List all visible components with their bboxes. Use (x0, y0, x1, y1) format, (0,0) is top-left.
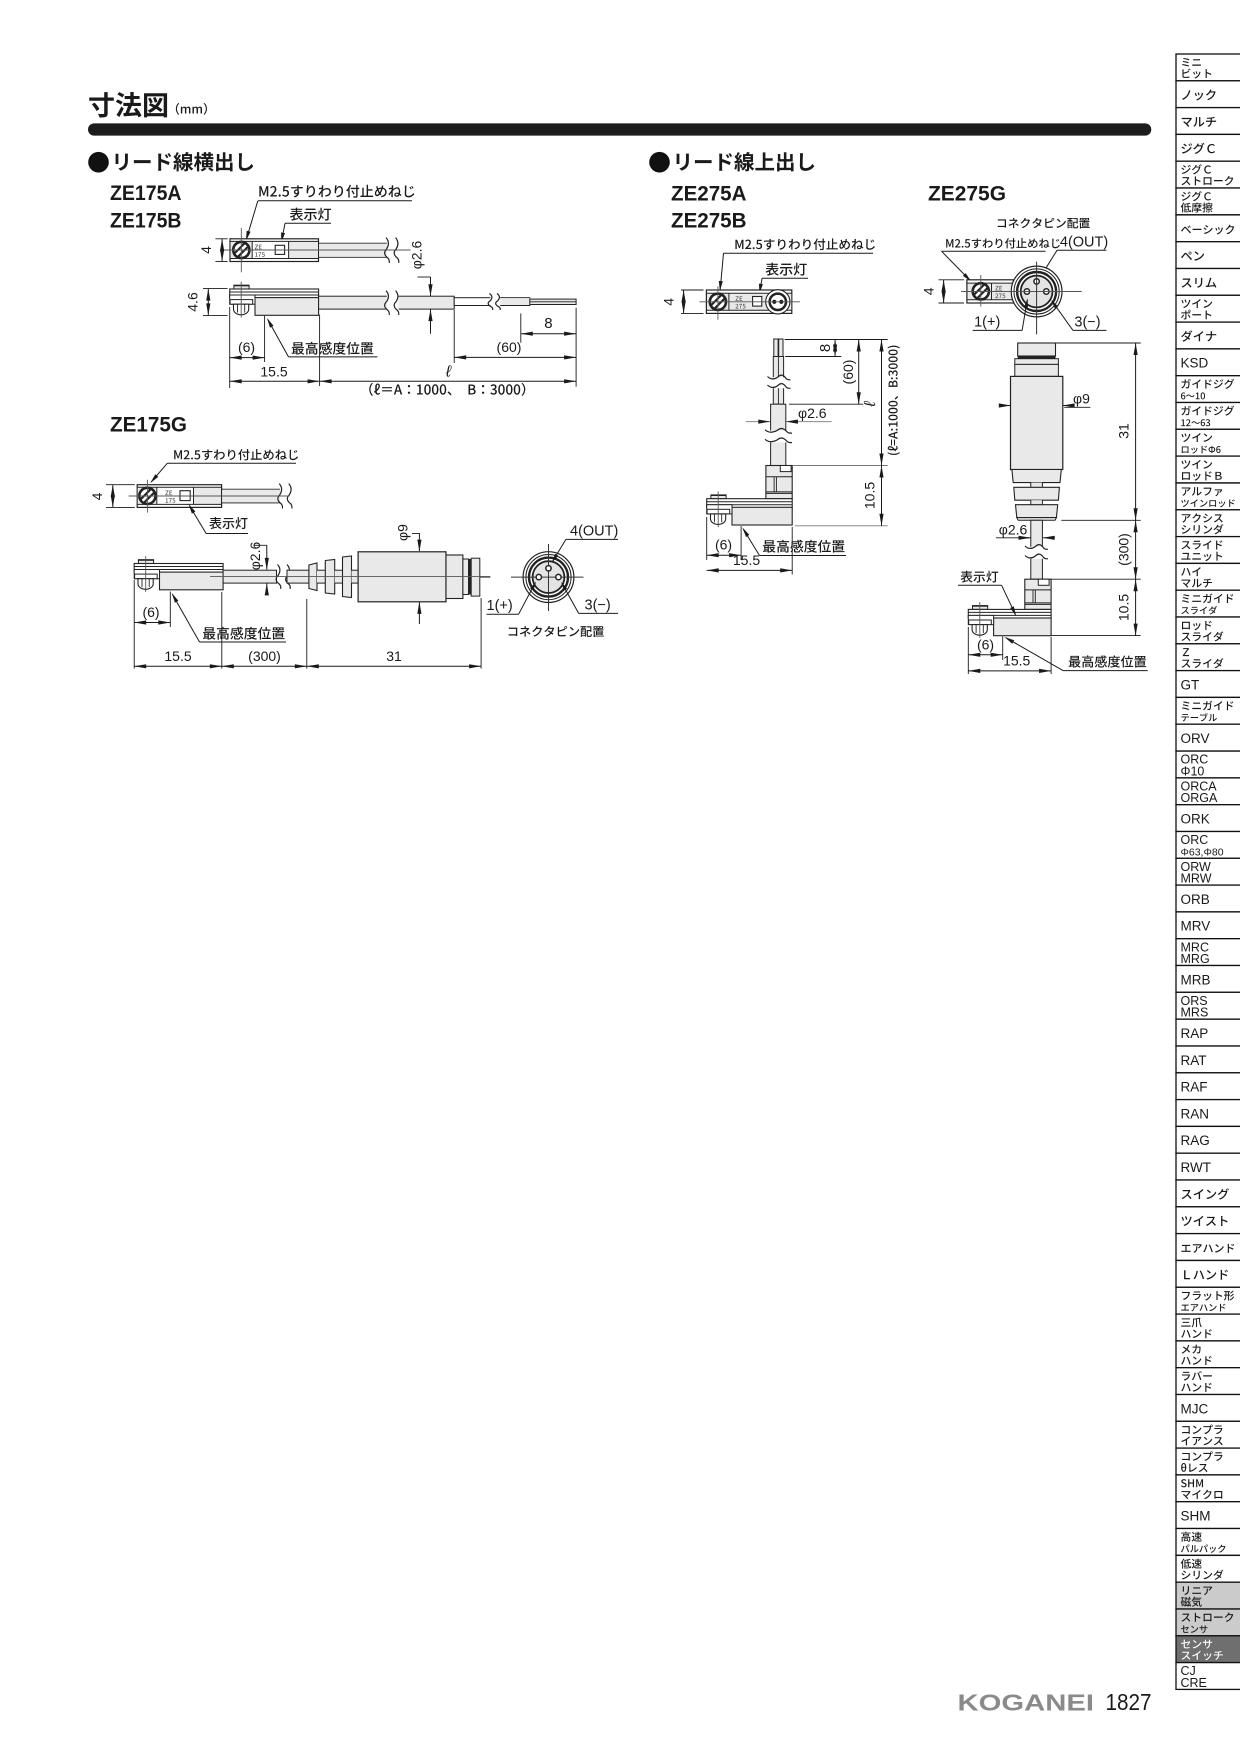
fig1 top view centerline (222, 249, 411, 251)
sidebar tab RAN (1176, 1100, 1240, 1127)
fig2 connector boot waist3 (352, 570, 359, 583)
svg-text:15.5: 15.5 (260, 364, 287, 380)
fig2 top view indicator square (180, 491, 190, 501)
svg-text:(6): (6) (142, 604, 159, 620)
fig3 dim 8 (834, 340, 836, 357)
sidebar tab Ｚ (1176, 644, 1240, 671)
sidebar tab ジグＣ (1176, 188, 1240, 215)
fig2 label M2.5 screw (174, 449, 298, 460)
fig3 ext left (706, 517, 708, 560)
fig3 top view inner lines (706, 292, 791, 294)
svg-text:KSD: KSD (1181, 356, 1209, 371)
svg-text:ORC: ORC (1181, 833, 1209, 847)
svg-text:RAG: RAG (1181, 1133, 1210, 1148)
fig4 label 表示灯 (960, 571, 998, 583)
fig2 pin 4 (546, 566, 551, 571)
fig4 boot waist1 (1031, 483, 1043, 488)
fig3 leader 表示灯 (762, 277, 808, 279)
fig2 connector ring (446, 555, 463, 599)
fig4 dim 15.5 (968, 670, 1051, 672)
sidebar tab RAP (1176, 1019, 1240, 1046)
fig4 top view inner band (968, 283, 1013, 300)
sidebar tab コンプラ (1176, 1448, 1240, 1475)
fig2 connector boot waist1 (317, 570, 325, 583)
sidebar tab フラット形 (1176, 1287, 1240, 1314)
sidebar tab ロッド (1176, 617, 1240, 644)
fig2 ext boot left (306, 599, 308, 669)
svg-text:SHM: SHM (1181, 1509, 1211, 1524)
fig2 top view model text (165, 491, 172, 496)
fig2 connector boot rib2 (325, 560, 334, 595)
fig4 leader M2.5 (942, 250, 1046, 252)
section heading リード線上出し (676, 152, 814, 171)
fig2 top view vertical centerline (146, 480, 148, 513)
fig2 connector oring (469, 559, 472, 595)
fig4 dim phi2.6 (1018, 537, 1030, 539)
sidebar tab ダイナ (1176, 322, 1240, 349)
fig4 pin crosshair (1036, 262, 1038, 335)
fig3 top view indicator square (753, 297, 762, 307)
svg-text:ORK: ORK (1181, 812, 1210, 827)
sidebar tab ペン (1176, 242, 1240, 269)
svg-text:31: 31 (386, 648, 402, 664)
svg-text:RAT: RAT (1181, 1053, 1207, 1068)
sidebar tab スリム (1176, 269, 1240, 296)
fig3 top view inner band (707, 293, 791, 310)
fig2 pin 3 (556, 574, 561, 579)
fig2 label 1(+) line (487, 613, 519, 615)
fig2 side centerline (210, 576, 490, 578)
fig4 label 3(-) line (1073, 329, 1106, 331)
fig2 connector boot rib3 (343, 556, 352, 598)
svg-text:φ2.6: φ2.6 (409, 241, 425, 270)
svg-text:(60): (60) (840, 360, 856, 385)
fig1 top view cable (319, 243, 391, 257)
fig2 side cable (223, 570, 276, 583)
fig3 dim 10.5 (881, 466, 883, 526)
fig1 side thin tube (454, 298, 530, 306)
sidebar tab MJC (1176, 1395, 1240, 1422)
fig1 top view vertical centerline (240, 228, 242, 272)
fig1 dim 4.6 (207, 289, 209, 316)
fig2 ext body right (221, 592, 223, 669)
sidebar tab ツイン (1176, 295, 1240, 322)
fig4 pin circle rings (1011, 266, 1062, 317)
fig3 boss lines (766, 476, 792, 478)
sidebar tab SHM (1176, 1475, 1240, 1502)
fig1 top view cable break (387, 238, 399, 263)
fig4 sensor underline+leader (1063, 670, 1148, 672)
fig4 ext boss top (1051, 578, 1141, 580)
sidebar tab ノック (1176, 81, 1240, 108)
fig4 boss lines (1025, 589, 1051, 591)
svg-text:ORB: ORB (1181, 892, 1210, 907)
fig4 dim 31 (1135, 343, 1137, 520)
fig3 top view model text (735, 296, 742, 301)
sidebar tab ORS (1176, 992, 1240, 1019)
fig2 label 4(OUT) line (566, 538, 618, 540)
sidebar tab RAT (1176, 1046, 1240, 1073)
sidebar tab SHM (1176, 1502, 1240, 1529)
fig1 side twin lead (530, 299, 576, 304)
fig2 connector ring2 (463, 559, 469, 595)
fig3 dim l (881, 340, 883, 466)
fig3 cable break (765, 431, 792, 443)
fig1 top view body (230, 239, 319, 262)
fig4 connector oring (1018, 356, 1056, 359)
sidebar tab MRV (1176, 912, 1240, 939)
fig4 label 最高感度位置 (1069, 655, 1146, 667)
fig3 jacket break (768, 377, 791, 388)
fig4 ext sensor (1002, 637, 1004, 661)
svg-text:4: 4 (198, 246, 214, 254)
sidebar tab ORB (1176, 885, 1240, 912)
sidebar tab 高速 (1176, 1529, 1240, 1556)
fig4 boot rib1 (1012, 470, 1061, 483)
svg-text:1827: 1827 (1106, 1689, 1152, 1715)
sidebar tab ミニガイド (1176, 697, 1240, 724)
fig4 top view vertical centerline (980, 275, 982, 307)
sidebar tab MRC (1176, 939, 1240, 966)
section bullet left (88, 152, 109, 173)
fig2 dim phi9 (418, 533, 420, 551)
fig4 cable phi2.6 (1031, 520, 1043, 579)
sidebar tab スイング (1176, 1180, 1240, 1207)
fig2 top view body (137, 485, 221, 508)
title bar (88, 123, 1151, 135)
fig2 top view cable (222, 489, 283, 503)
fig3 top view centerline (699, 301, 800, 303)
fig3 cable phi2.6 (771, 404, 786, 465)
svg-text:4.6: 4.6 (185, 292, 201, 312)
fig3 ext lead end (785, 356, 841, 358)
fig1 top view inner band (231, 241, 253, 258)
svg-text:KOGANEI: KOGANEI (958, 1690, 1095, 1716)
sidebar tab マルチ (1176, 108, 1240, 135)
fig1 side view body (234, 285, 249, 289)
sidebar tab ORC (1176, 751, 1240, 778)
fig4 ext boot bottom (1061, 519, 1140, 521)
fig1 dim 4.6 ext (203, 288, 228, 290)
sidebar tab CJ (1176, 1663, 1240, 1690)
fig2 leader M2.5 (167, 462, 296, 464)
fig2 ext left (133, 580, 135, 669)
fig1 dim 8 (521, 333, 576, 335)
svg-text:8: 8 (817, 344, 834, 352)
fig2 sensor underline+leader (200, 641, 287, 643)
svg-text:φ2.6: φ2.6 (999, 522, 1028, 538)
fig4 connector ring (1015, 364, 1059, 376)
fig4 top view screw M2.5 (973, 283, 989, 299)
fig4 boot waist2 (1031, 500, 1043, 505)
sidebar tab ガイドジグ (1176, 376, 1240, 403)
fig4 label 4(OUT) line (1057, 249, 1106, 251)
svg-text:MRW: MRW (1181, 872, 1212, 886)
fig2 top view screw M2.5 (139, 488, 155, 504)
fig4 ext left (967, 627, 969, 674)
fig2 side view body (138, 560, 153, 564)
svg-text:MRV: MRV (1181, 919, 1211, 934)
fig3 top view exit circle (766, 290, 790, 314)
fig1 label 表示灯 (290, 208, 331, 221)
fig3 ext top (785, 339, 888, 341)
sidebar tab ミニ (1176, 54, 1240, 81)
fig4 connector cylinder (1011, 376, 1063, 469)
fig4 pin 4 (1034, 279, 1039, 284)
fig4 dim 4 ext (939, 279, 965, 281)
fig1 ext sensor pos (264, 316, 266, 362)
svg-text:MRS: MRS (1181, 1006, 1209, 1020)
fig2 connector boot rib1 (309, 563, 317, 591)
svg-text:Φ63,Φ80: Φ63,Φ80 (1181, 847, 1224, 859)
fig3 ext body top (793, 465, 888, 467)
sidebar tab RWT (1176, 1153, 1240, 1180)
fig2 label 3(-) line (579, 612, 618, 614)
sidebar tab ORW (1176, 858, 1240, 885)
svg-text:ORGA: ORGA (1181, 791, 1218, 805)
fig3 dim (60) (858, 340, 860, 405)
svg-text:RAN: RAN (1181, 1106, 1210, 1121)
sidebar tab センサ (1176, 1636, 1240, 1663)
fig3 label 最高感度位置 (763, 540, 845, 553)
fig1 ext wire end (575, 308, 577, 387)
fig4 boot rib3 (1016, 505, 1058, 518)
fig2 top view inner lines (137, 486, 221, 488)
fig3 label M2.5 screw (735, 238, 874, 250)
svg-text:CRE: CRE (1181, 1676, 1207, 1690)
fig4 connector ring2 (1015, 359, 1059, 365)
fig1 label 最高感度位置 (292, 342, 374, 355)
sidebar tab ミニガイド (1176, 590, 1240, 617)
sidebar tab MRB (1176, 966, 1240, 993)
fig3 dim 15.5 (707, 569, 793, 571)
svg-text:4: 4 (89, 492, 105, 500)
svg-text:ℓ: ℓ (862, 401, 879, 408)
title 寸法図 (89, 92, 167, 117)
svg-text:ORV: ORV (1181, 731, 1210, 746)
svg-text:ZE175A: ZE175A (110, 182, 182, 205)
fig4 ext body right (1050, 637, 1052, 674)
svg-text:4: 4 (661, 298, 677, 306)
svg-text:ZE275G: ZE275G (928, 183, 1006, 206)
fig3 top view screw M2.5 (710, 294, 726, 310)
sidebar tab KSD (1176, 349, 1240, 376)
sidebar tab ORK (1176, 805, 1240, 832)
sidebar tab ベーシック (1176, 215, 1240, 242)
svg-text:10.5: 10.5 (862, 482, 878, 509)
svg-text:ZE275A: ZE275A (671, 183, 747, 206)
fig1 top view model text (255, 245, 262, 250)
svg-text:(6): (6) (715, 537, 732, 553)
svg-text:ZE175B: ZE175B (110, 209, 182, 232)
sidebar tab ガイドジグ (1176, 403, 1240, 430)
svg-text:RAF: RAF (1181, 1080, 1208, 1095)
fig3 ext body right (791, 527, 793, 575)
svg-text:MRG: MRG (1181, 952, 1210, 966)
fig4 side body (973, 606, 988, 610)
sidebar tab Ｌハンド (1176, 1261, 1240, 1288)
sidebar tab ストローク (1176, 1609, 1240, 1636)
fig4 cable break (1025, 547, 1048, 559)
sidebar tab 三爪 (1176, 1314, 1240, 1341)
sidebar tab RAG (1176, 1126, 1240, 1153)
fig1 side cable (319, 296, 455, 309)
fig4 boot end (1017, 518, 1057, 521)
fig1 dim l line (320, 380, 576, 382)
fig1 dim (6) (230, 357, 265, 359)
sidebar tab コンプラ (1176, 1421, 1240, 1448)
fig1 leader M2.5 (258, 200, 412, 202)
fig3 jacket tube (773, 357, 783, 405)
fig4 dim 4 (943, 280, 945, 303)
fig1 side cable break (387, 291, 399, 315)
svg-text:φ2.6: φ2.6 (247, 542, 263, 571)
svg-text:4(OUT): 4(OUT) (1060, 235, 1108, 251)
svg-text:MJC: MJC (1181, 1401, 1209, 1416)
sidebar tab リニア (1176, 1582, 1240, 1609)
fig1 leader 表示灯 (285, 222, 331, 224)
fig2 pin circle rings (523, 552, 574, 603)
section heading リード線横出し (115, 152, 253, 171)
fig4 leader 表示灯 (958, 584, 1002, 586)
fig4 pin 1 (1024, 289, 1029, 294)
svg-text:ℓ: ℓ (445, 364, 452, 381)
sidebar tab ORCA (1176, 778, 1240, 805)
sidebar tab ジグＣ (1176, 161, 1240, 188)
fig4 body boss (1025, 579, 1051, 609)
fig4 top view model text (995, 286, 1002, 291)
fig1 top view screw M2.5 (233, 242, 249, 258)
title (mm) (176, 103, 207, 115)
fig1 dim 4 ext lines (215, 238, 227, 240)
svg-text:3(−): 3(−) (585, 598, 611, 614)
fig2 dim 31 (307, 665, 481, 667)
svg-text:(60): (60) (497, 339, 522, 355)
fig2 leader 表示灯 (206, 533, 248, 535)
fig1 side tube gray tail (494, 298, 530, 305)
svg-text:8: 8 (544, 315, 552, 332)
fig2 dim 4 ext (106, 484, 135, 486)
fig1 dim 15.5 (230, 380, 320, 382)
svg-text:1(+): 1(+) (487, 598, 513, 614)
fig4 connector tip cap (1018, 343, 1056, 356)
fig2 label コネクタピン配置 (509, 626, 604, 637)
sidebar tab ツイスト (1176, 1207, 1240, 1234)
svg-text:Φ10: Φ10 (1181, 764, 1205, 778)
svg-text:ZE175G: ZE175G (110, 414, 187, 437)
svg-text:(300): (300) (248, 648, 281, 664)
sidebar tab ラバー (1176, 1368, 1240, 1395)
fig2 side cable break (278, 565, 290, 590)
fig1 side tube break (490, 294, 500, 311)
svg-text:RWT: RWT (1181, 1160, 1212, 1175)
sidebar tab 低速 (1176, 1555, 1240, 1582)
svg-text:φ9: φ9 (1073, 391, 1090, 407)
fig4 dim (300) (1135, 520, 1137, 579)
fig1 ext 60 start (453, 310, 455, 363)
fig3 dim 4 ext (681, 289, 704, 291)
fig1 ext 8 start (520, 313, 522, 342)
fig2 label 最高感度位置 (203, 627, 285, 640)
svg-text:(6): (6) (977, 637, 994, 653)
fig3 ext sensor (740, 526, 742, 560)
svg-text:φ9: φ9 (395, 524, 411, 541)
fig1 dim l legend (369, 383, 525, 396)
fig3 label 表示灯 (766, 263, 807, 276)
svg-text:GT: GT (1181, 677, 1200, 692)
svg-text:φ2.6: φ2.6 (798, 405, 827, 421)
fig2 dim 4 (112, 485, 114, 508)
fig4 pin 3 (1044, 289, 1049, 294)
fig4 top view body (967, 280, 1014, 303)
fig4 label M2.5 screw (946, 238, 1060, 248)
sidebar tab ジグＣ (1176, 134, 1240, 161)
fig2 top view centerline (129, 495, 290, 497)
fig4 dim 10.5 (1135, 579, 1137, 635)
fig4 top view centerline (961, 291, 1082, 293)
sidebar tab アクシス (1176, 510, 1240, 537)
fig4 dim phi9 (1002, 405, 1010, 407)
fig3 side body (711, 495, 726, 499)
fig3 dim 4 (683, 290, 685, 313)
fig2 ext conn end (480, 598, 482, 669)
svg-text:4: 4 (921, 287, 937, 295)
fig1 dim phi2.6 arrows (430, 277, 432, 296)
svg-text:15.5: 15.5 (164, 648, 191, 664)
fig2 top view cable break (280, 484, 292, 509)
fig3 dim l legend (888, 346, 900, 455)
section bullet right (649, 152, 670, 173)
sidebar tab エアハンド (1176, 1234, 1240, 1261)
svg-text:(300): (300) (1116, 533, 1132, 566)
fig3 top view body (706, 290, 791, 313)
svg-text:15.5: 15.5 (733, 552, 760, 568)
fig4 ext conn top (1056, 342, 1141, 344)
svg-text:1(+): 1(+) (974, 315, 1000, 331)
fig2 dim (300) (222, 665, 307, 667)
fig1 sensor pos underline+leader (289, 356, 378, 358)
fig2 pin crosshair (548, 544, 550, 611)
fig2 dim (6) (134, 622, 170, 624)
sidebar tab RAF (1176, 1073, 1240, 1100)
sidebar tab メカ (1176, 1341, 1240, 1368)
svg-text:31: 31 (1116, 423, 1132, 439)
svg-text:10.5: 10.5 (1116, 594, 1132, 621)
sidebar tab ツイン (1176, 429, 1240, 456)
fig1 dim 4 (221, 239, 223, 262)
fig2 pin 1 (536, 574, 541, 579)
fig1 top view inner lines (230, 240, 319, 242)
svg-text:MRB: MRB (1181, 972, 1211, 987)
fig3 top view exit leads (772, 300, 776, 304)
fig3 top view vertical centerline (717, 286, 719, 319)
fig3 dim phi2.6 (746, 421, 770, 423)
sidebar tab ORV (1176, 724, 1240, 751)
svg-text:4(OUT): 4(OUT) (570, 524, 618, 540)
fig3 boss notch (780, 466, 791, 472)
sidebar tab ツイン (1176, 456, 1240, 483)
fig4 boss notch (1038, 579, 1049, 585)
fig4 ext body bottom (1051, 635, 1141, 637)
fig3 ext body bottom (795, 525, 888, 527)
svg-text:RAP: RAP (1181, 1026, 1209, 1041)
fig2 top view inner band (138, 487, 157, 504)
fig3 sensor underline+leader (760, 555, 847, 557)
fig4 label 1(+) line (973, 329, 1022, 331)
fig2 dim phi2.6 (266, 545, 268, 569)
fig1 ext 6-15.5 left (229, 307, 231, 388)
sidebar tab アルファ (1176, 483, 1240, 510)
